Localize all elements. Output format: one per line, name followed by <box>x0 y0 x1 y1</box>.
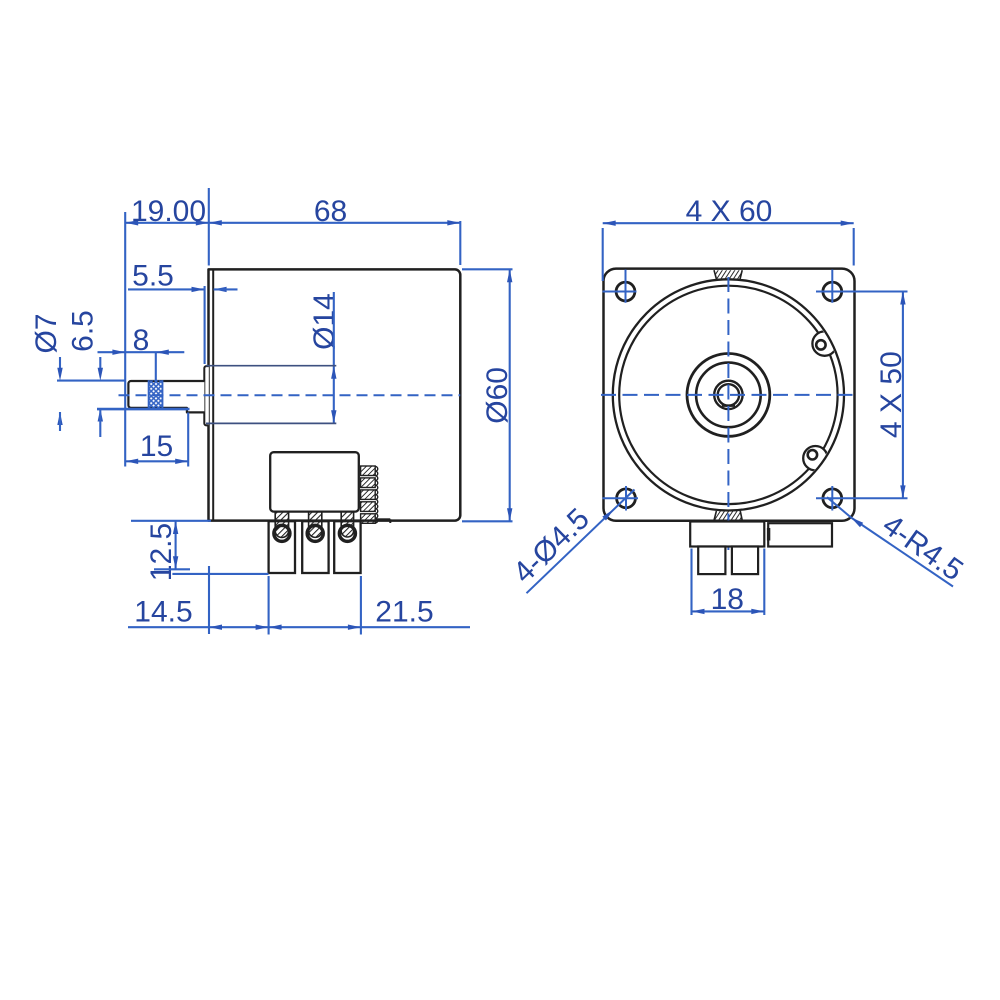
svg-text:14.5: 14.5 <box>134 596 192 629</box>
svg-text:Ø14: Ø14 <box>308 293 341 350</box>
terminal pin block 1 <box>269 521 295 573</box>
crosshair top-right hole <box>816 291 908 293</box>
assembly screw ear top-right <box>812 331 836 355</box>
assembly screw hole top-right <box>816 340 825 349</box>
assembly screw hole bottom-right <box>808 450 817 459</box>
svg-text:68: 68 <box>314 195 347 228</box>
leader 4-R4.5 <box>827 497 851 517</box>
vertical centerline front view <box>727 277 729 551</box>
terminal block right (front view) <box>768 523 832 546</box>
terminal tab right <box>732 547 758 575</box>
output shaft with flat <box>128 381 204 412</box>
center boss inner circle <box>696 363 761 428</box>
dim 68 <box>209 220 222 225</box>
dim 19.00 <box>124 212 126 467</box>
front square flange <box>604 269 855 521</box>
terminal tab left <box>698 547 725 575</box>
corner hole bottom-left <box>617 489 636 508</box>
gearbox outer circle <box>613 279 844 510</box>
crosshair top-left hole <box>603 291 637 293</box>
block seam tick <box>767 528 770 541</box>
corner hole top-left <box>616 282 635 301</box>
svg-text:Ø7: Ø7 <box>30 313 63 353</box>
terminal box <box>270 452 359 511</box>
terminal pin block 3 <box>334 521 360 573</box>
center boss outer circle <box>687 354 770 437</box>
svg-text:5.5: 5.5 <box>132 260 174 293</box>
svg-text:19.00: 19.00 <box>131 195 206 228</box>
corner hole bottom-right <box>823 489 842 508</box>
gearbox inner circle <box>619 286 837 504</box>
leader 4-dia4.5 <box>527 490 635 594</box>
shaft circle <box>714 381 742 409</box>
shaft knurl hatch <box>149 380 163 409</box>
bottom seam hatch <box>714 511 742 521</box>
svg-text:15: 15 <box>140 430 173 463</box>
svg-text:12.5: 12.5 <box>145 523 178 581</box>
crosshair bottom-left hole <box>603 497 639 499</box>
crosshair bottom-right hole <box>816 497 908 499</box>
shaft bore circle <box>718 384 739 405</box>
terminal pin block 2 <box>302 521 328 573</box>
cover seam ledge <box>376 518 390 520</box>
corner hole top-right <box>823 282 842 301</box>
terminal block left (front view) <box>690 522 764 547</box>
horizontal centerline front view <box>601 394 857 396</box>
svg-text:6.5: 6.5 <box>67 310 100 352</box>
assembly screw ear bottom-right <box>803 446 827 470</box>
front flange inner line <box>212 269 214 521</box>
motor body (side view) <box>209 269 461 520</box>
shaft centerline <box>119 394 461 396</box>
svg-text:21.5: 21.5 <box>375 596 433 629</box>
front hub boss <box>204 366 209 425</box>
shaft flat chord <box>722 405 735 407</box>
top seam hatch <box>714 270 742 279</box>
